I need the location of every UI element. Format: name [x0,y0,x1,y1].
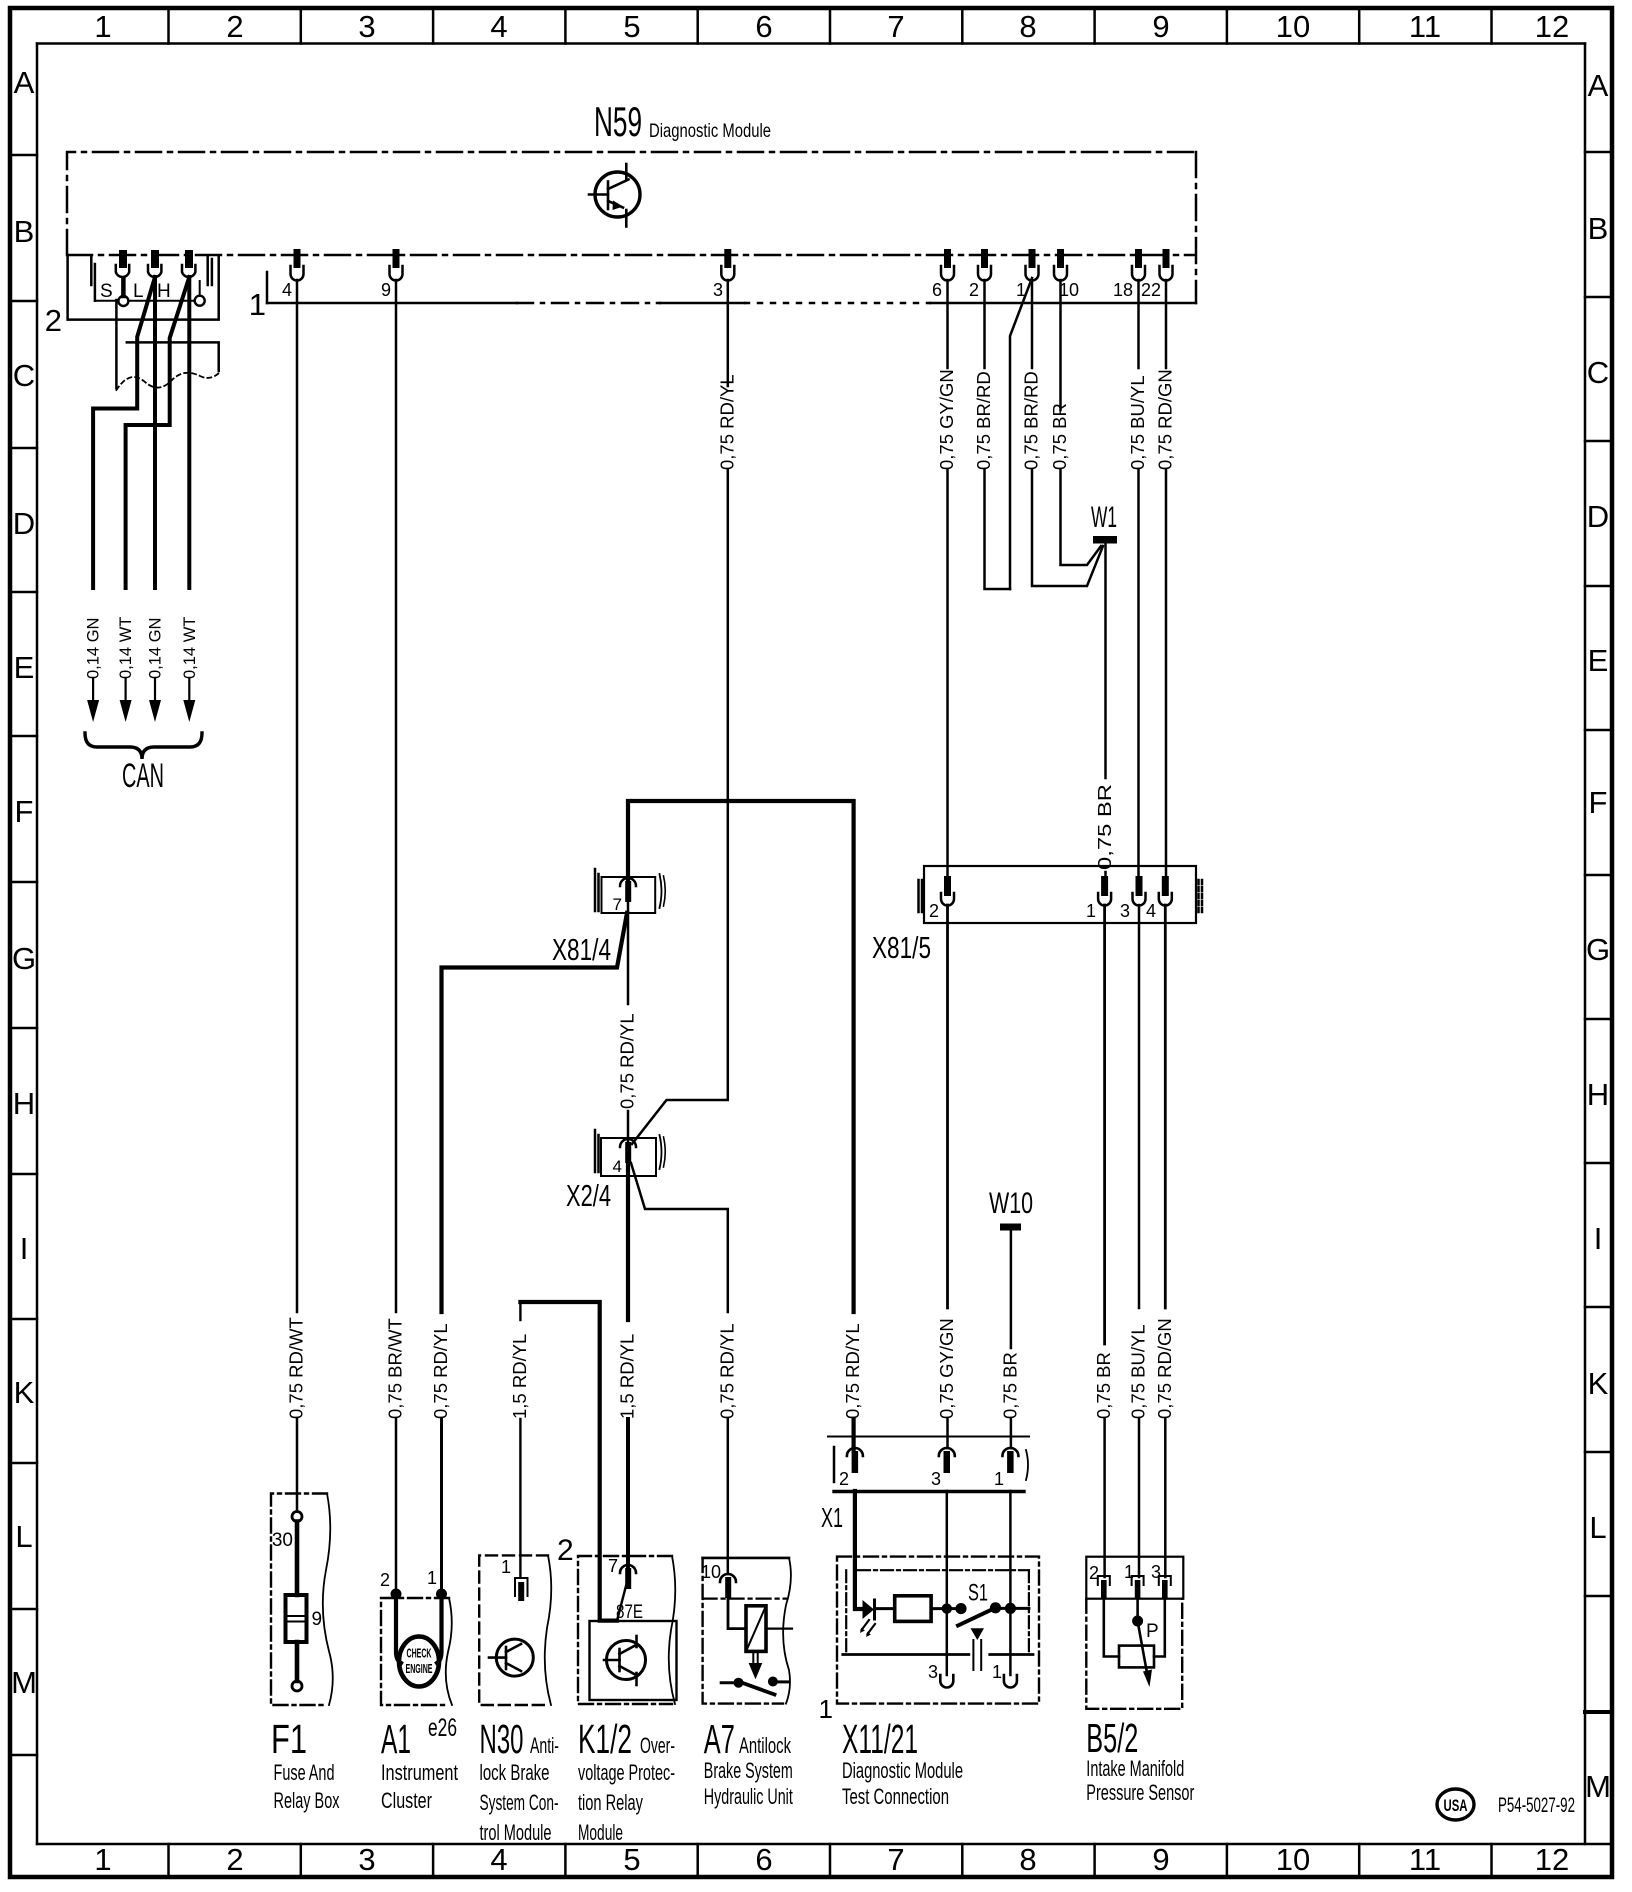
svg-text:10: 10 [1059,280,1079,300]
connector X2/4 [566,1130,665,1213]
top grid separators [167,10,170,44]
svg-text:L: L [133,281,144,302]
svg-text:C: C [1587,355,1609,390]
svg-text:H: H [157,281,171,302]
wire CAN 4: pin H straight, 0,14 WT [187,277,191,700]
svg-text:7: 7 [887,9,904,44]
A7 pin 10 socket [720,1574,736,1598]
svg-text:A: A [1588,68,1609,103]
svg-text:7: 7 [608,1556,618,1576]
svg-text:0,75 BR/RD: 0,75 BR/RD [1021,371,1042,470]
component A1 Instrument Cluster (dash-dot box, torn right edge) [380,1568,452,1705]
svg-text:1: 1 [94,9,111,44]
svg-text:1: 1 [819,1694,833,1724]
USA logo [1437,1789,1474,1820]
svg-text:H: H [1587,1077,1609,1112]
X1 pin 2 [839,1448,863,1489]
svg-text:F: F [15,794,34,829]
wire N59 pin18 to X81/5 pin3, 0,75 BU/YL [1127,280,1148,878]
svg-text:0,75 BR: 0,75 BR [1093,1352,1114,1419]
svg-text:S1: S1 [968,1580,988,1607]
svg-text:Antilock: Antilock [739,1733,791,1758]
wire CAN 3: pin L straight, 0,14 GN [153,277,157,700]
wire X81/5 pin2 down to X1 pin3, 0,75 GY/GN [936,905,957,1448]
svg-text:B: B [14,214,35,249]
fuse F1 element [286,1522,323,1682]
svg-text:S: S [100,281,113,302]
svg-text:G: G [1586,932,1610,967]
svg-text:1: 1 [249,287,266,322]
svg-text:6: 6 [755,9,772,44]
ground W10 [989,1187,1033,1231]
svg-text:2: 2 [380,1570,390,1590]
svg-text:Cluster: Cluster [381,1788,432,1813]
component name labels [271,1714,1195,1845]
svg-text:0,75 RD/GN: 0,75 RD/GN [1155,369,1176,470]
svg-text:0,75 RD/YL: 0,75 RD/YL [842,1323,863,1419]
svg-text:12: 12 [1535,1842,1569,1877]
wire N59 pin4 to F1, 0,75 RD/WT [286,280,307,1510]
svg-text:G: G [12,941,36,976]
svg-text:1: 1 [94,1842,111,1877]
svg-text:3: 3 [928,1662,938,1682]
left row separators [10,154,37,157]
svg-text:22: 22 [1141,280,1161,300]
svg-text:2: 2 [969,280,979,300]
svg-text:2: 2 [45,303,62,338]
A1 junction dots [391,1589,448,1600]
svg-text:Diagnostic Module: Diagnostic Module [842,1758,963,1783]
svg-text:X1: X1 [821,1502,843,1533]
svg-text:A: A [14,65,35,100]
svg-text:7: 7 [887,1842,904,1877]
svg-text:Diagnostic Module: Diagnostic Module [649,120,771,142]
svg-text:9: 9 [1152,1842,1169,1877]
X11/21 pin 3 [928,1662,953,1688]
svg-text:5: 5 [623,1842,640,1877]
wire N59 pin22 to X81/5 pin4, 0,75 RD/GN [1155,280,1176,878]
svg-text:W10: W10 [989,1187,1033,1220]
B5/2 pin 1 socket [1132,1576,1144,1599]
svg-text:H: H [13,1086,35,1121]
svg-text:4: 4 [490,9,507,44]
svg-text:0,14 WT: 0,14 WT [181,617,199,679]
svg-text:W1: W1 [1091,501,1117,534]
connector 2 block (N59 CAN connector S/L/H) [45,255,219,338]
svg-text:K: K [14,1375,35,1410]
wire X81/5 pin3 down to B5/2 pin1, 0,75 BU/YL [1128,905,1149,1577]
svg-text:4: 4 [490,1842,507,1877]
svg-text:3: 3 [713,280,723,300]
N59 pin 18 [1113,249,1145,300]
svg-text:X11/21: X11/21 [842,1716,918,1762]
svg-text:3: 3 [358,1842,375,1877]
component X11/21 Diagnostic Module Test Connection (dash-dot outer box) [819,1557,1039,1724]
svg-text:0,75 BR: 0,75 BR [1049,403,1070,470]
svg-text:0,75 BU/YL: 0,75 BU/YL [1127,375,1148,470]
svg-text:0,75 RD/GN: 0,75 RD/GN [1154,1318,1175,1419]
K1/2 inner box [590,1621,677,1700]
svg-text:Instrument: Instrument [381,1760,459,1785]
svg-text:tion Relay: tion Relay [578,1790,643,1815]
component K1/2 Overvoltage Protection Relay Module (dash-dot box, torn right edge) [578,1556,675,1704]
svg-text:F1: F1 [271,1716,307,1762]
svg-text:X81/4: X81/4 [552,932,611,967]
svg-text:ENGINE: ENGINE [406,1662,433,1676]
svg-text:I: I [20,1231,29,1266]
svg-text:N30: N30 [480,1716,524,1762]
svg-text:Test Connection: Test Connection [842,1784,949,1809]
svg-text:4: 4 [613,1157,622,1176]
svg-text:CHECK: CHECK [407,1647,432,1661]
F1 terminal 30 [272,1512,302,1552]
wire CAN 1: pin L via diagonal, 0,14 GN [93,277,155,700]
connector X81/4 pin 7 socket [620,878,636,902]
svg-text:3: 3 [1120,901,1130,921]
svg-text:L: L [15,1519,32,1554]
relay coil in A7 [728,1597,792,1679]
N59 pin 10 [1054,249,1079,300]
svg-text:10: 10 [1276,9,1310,44]
N59 pin L [148,250,161,277]
svg-text:voltage Protec-: voltage Protec- [578,1760,675,1785]
svg-text:C: C [13,358,35,393]
connector strip node 1 (N59 plug row) [249,272,1196,322]
svg-text:2: 2 [226,1842,243,1877]
svg-text:6: 6 [755,1842,772,1877]
indicator lamp e26 CHECK ENGINE in A1 [396,1594,442,1687]
transistor U1 inside N59 [589,164,640,227]
component B5/2 Intake Manifold Pressure Sensor [1086,1557,1183,1709]
svg-text:A1: A1 [381,1716,411,1762]
svg-text:Fuse And: Fuse And [274,1760,335,1785]
N59 pin H [182,250,195,277]
svg-text:Pressure Sensor: Pressure Sensor [1086,1780,1194,1805]
svg-text:B: B [1588,211,1609,246]
svg-text:K1/2: K1/2 [578,1716,632,1762]
svg-text:0,75 GY/GN: 0,75 GY/GN [936,1318,957,1419]
svg-text:e26: e26 [428,1714,457,1742]
svg-text:Intake Manifold: Intake Manifold [1086,1756,1184,1781]
svg-text:0,75 GY/GN: 0,75 GY/GN [936,369,957,470]
svg-text:Anti-: Anti- [530,1733,559,1758]
X1 pin 1 [994,1448,1018,1489]
wire W10 stem to X1 pin1, 0,75 BR [999,1230,1020,1448]
N59 pin S [116,250,129,277]
svg-text:K: K [1588,1366,1609,1401]
svg-text:0,14 GN: 0,14 GN [147,618,165,679]
wire N59 pin9 to A1 pin2, 0,75 BR/WT [385,280,406,1589]
svg-text:1,5 RD/YL: 1,5 RD/YL [617,1334,638,1419]
svg-text:2: 2 [557,1534,574,1567]
svg-text:11: 11 [1409,1842,1441,1877]
potentiometer in B5/2 [1104,1599,1165,1687]
svg-text:9: 9 [312,1609,323,1630]
LED test lamp in X11/21 [860,1600,895,1637]
svg-text:System Con-: System Con- [480,1790,559,1815]
svg-text:M: M [11,1665,37,1700]
module N59 Diagnostic Module (dash-dot box) [67,98,1196,303]
torn continuation box of connector 2 [116,300,219,390]
svg-text:0,75 BR: 0,75 BR [1094,784,1115,870]
transistor symbol in K1/2 [604,1636,646,1685]
component A7 ABS Hydraulic Unit (dash-dot box, torn right edge) [701,1558,791,1704]
X81/5 pin 1 [1086,876,1111,921]
CAN wire labels [85,617,199,679]
svg-text:1: 1 [992,1662,1002,1682]
CAN brace and label [85,733,202,795]
wire CAN 2: pin H via diagonal, 0,14 WT [126,277,190,700]
svg-text:1: 1 [501,1557,511,1577]
N59 pin 3 [713,249,734,300]
N59 pin 1 [1016,249,1039,300]
component F1 Fuse And Relay Box (dash-dot box, torn right edge) [271,1494,333,1706]
svg-text:P54-5027-92: P54-5027-92 [1498,1794,1575,1817]
wire X2/4 pin4 diagonal to A7 pin10, 0,75 RD/YL [631,1163,737,1574]
svg-text:5: 5 [623,9,640,44]
CAN arrows [87,700,195,722]
wire N59 pin2 jumper to pin1, 0,75 BR/RD [973,280,1010,589]
N59 pin 2 [969,249,991,300]
K1/2 pin 7 socket [620,1565,636,1589]
svg-text:3: 3 [358,9,375,44]
svg-text:E: E [1588,643,1609,678]
svg-text:0,75 BR/RD: 0,75 BR/RD [973,371,994,470]
svg-text:L: L [1589,1510,1606,1545]
svg-text:Relay Box: Relay Box [274,1788,340,1813]
connector X81/4 [552,869,665,967]
shield wire from pin S to terminal rings [95,279,205,306]
wire X81/4 pin7 down to X2/4 pin4, 0,75 RD/YL [617,902,638,1143]
svg-text:6: 6 [932,280,942,300]
svg-text:0,14 WT: 0,14 WT [117,617,135,679]
connector X81/5 [872,866,1202,965]
svg-text:Over-: Over- [640,1733,675,1758]
X81/5 pin 3 [1120,876,1146,921]
svg-text:2: 2 [226,9,243,44]
component N30 ABS Control Module (dashed box, torn right edge) [479,1534,573,1705]
svg-text:1,5 RD/YL: 1,5 RD/YL [509,1334,530,1419]
N59 pin 9 [381,249,403,300]
thick wire N30 pin1 up over to K1/2 pin7, 1,5 RD/YL [509,1302,627,1621]
svg-text:X2/4: X2/4 [566,1178,611,1213]
ground W1 [1091,501,1117,544]
svg-text:lock Brake: lock Brake [480,1760,550,1785]
svg-text:3: 3 [931,1469,941,1489]
svg-text:I: I [1594,1221,1603,1256]
wire N59 pin10 to ground W1, 0,75 BR [1049,280,1101,565]
node chain and switch S1 in X11/21 [931,1580,1029,1671]
svg-text:7: 7 [613,895,622,914]
svg-text:0,75 RD/YL: 0,75 RD/YL [716,1323,737,1419]
resistor in X11/21 [895,1596,931,1622]
svg-text:CAN: CAN [122,757,164,795]
svg-text:30: 30 [272,1530,293,1551]
svg-text:Hydraulic Unit: Hydraulic Unit [704,1784,793,1809]
wire X81/5 pin4 down to B5/2 pin3, 0,75 RD/GN [1154,905,1175,1577]
svg-text:P: P [1146,1621,1159,1642]
svg-text:trol Module: trol Module [480,1820,552,1845]
transistor symbol in N30 [489,1639,533,1676]
N59 pin 4 [282,249,304,300]
svg-text:B5/2: B5/2 [1086,1715,1138,1761]
wire N59 pin6 to X81/5 pin2, 0,75 GY/GN [936,280,957,878]
svg-text:1: 1 [994,1469,1004,1489]
svg-text:10: 10 [1276,1842,1310,1877]
F1 terminal bottom [292,1681,302,1691]
svg-text:A7: A7 [704,1716,735,1762]
svg-text:N59: N59 [594,98,642,145]
svg-text:Brake System: Brake System [704,1758,793,1783]
svg-text:11: 11 [1409,9,1441,44]
svg-text:2: 2 [929,901,939,921]
X11/21 pin 1 [992,1662,1017,1688]
X1 pin 3 [931,1448,955,1489]
N30 pin 1 socket [515,1578,528,1601]
thick route X81/4 pin7 diagonal to A1 pin1, 0,75 RD/YL [430,913,627,1589]
svg-text:D: D [13,506,35,541]
svg-text:X81/5: X81/5 [872,930,931,965]
svg-text:0,75 RD/YL: 0,75 RD/YL [430,1323,451,1419]
svg-text:0,75 RD/YL: 0,75 RD/YL [617,1013,638,1109]
svg-text:9: 9 [381,280,391,300]
X81/5 pin 4 [1146,876,1172,921]
pressure switch in A7 [721,1677,788,1695]
svg-text:F: F [1589,785,1608,820]
bottom grid separators [167,1844,170,1876]
wire N59 pin3 down to X2/4, 0,75 RD/YL [632,280,737,1144]
svg-text:10: 10 [701,1562,721,1582]
wire W1 stem to X81/5 pin1, 0,75 BR [1094,544,1115,879]
connector X2/4 pin 4 socket [620,1139,636,1163]
svg-text:0,14 GN: 0,14 GN [85,618,103,679]
svg-text:E: E [14,650,35,685]
svg-text:0,75 BR: 0,75 BR [999,1352,1020,1419]
svg-text:0,75 RD/YL: 0,75 RD/YL [716,374,737,470]
B5/2 pin 3 socket [1159,1576,1171,1599]
svg-text:D: D [1587,499,1609,534]
wire N59 pin1 to ground W1, 0,75 BR/RD [1021,280,1104,586]
B5/2 pin 2 socket [1098,1576,1110,1599]
svg-text:M: M [1585,1769,1611,1804]
wire jumper diagonal from N59 pin1 [1010,278,1032,589]
X11/21 internal verticals to bottom pins [947,1491,1011,1675]
svg-text:0,75 RD/WT: 0,75 RD/WT [286,1317,307,1419]
svg-text:0,75 BR/WT: 0,75 BR/WT [385,1318,406,1419]
right row separators [1585,151,1612,154]
wire X81/5 pin1 down to B5/2 pin2, 0,75 BR [1093,905,1114,1577]
svg-text:2: 2 [839,1469,849,1489]
thick route X81/4 pin7 up and over to X11/21, 0,75 RD/YL [628,801,863,1451]
svg-text:8: 8 [1019,9,1036,44]
svg-text:9: 9 [1152,9,1169,44]
svg-text:8: 8 [1019,1842,1036,1877]
svg-text:1: 1 [1086,901,1096,921]
svg-text:12: 12 [1535,9,1569,44]
thick wire X2/4 pin4 down to K1/2 pin7, 1,5 RD/YL [617,1163,638,1567]
svg-text:USA: USA [1444,1797,1468,1815]
connector strip X1 [821,1437,1029,1534]
wire into X11/21 (thick) [855,1491,863,1609]
svg-text:0,75 BU/YL: 0,75 BU/YL [1128,1324,1149,1419]
svg-text:4: 4 [282,280,292,300]
svg-text:Module: Module [578,1820,623,1845]
N59 pin 6 [932,249,954,300]
X11/21 inner connector outline [843,1570,1033,1654]
X81/5 pin 2 [929,876,954,921]
svg-text:1: 1 [427,1568,437,1588]
svg-text:4: 4 [1146,901,1156,921]
svg-text:18: 18 [1113,280,1133,300]
N59 pin 22 [1141,249,1173,300]
